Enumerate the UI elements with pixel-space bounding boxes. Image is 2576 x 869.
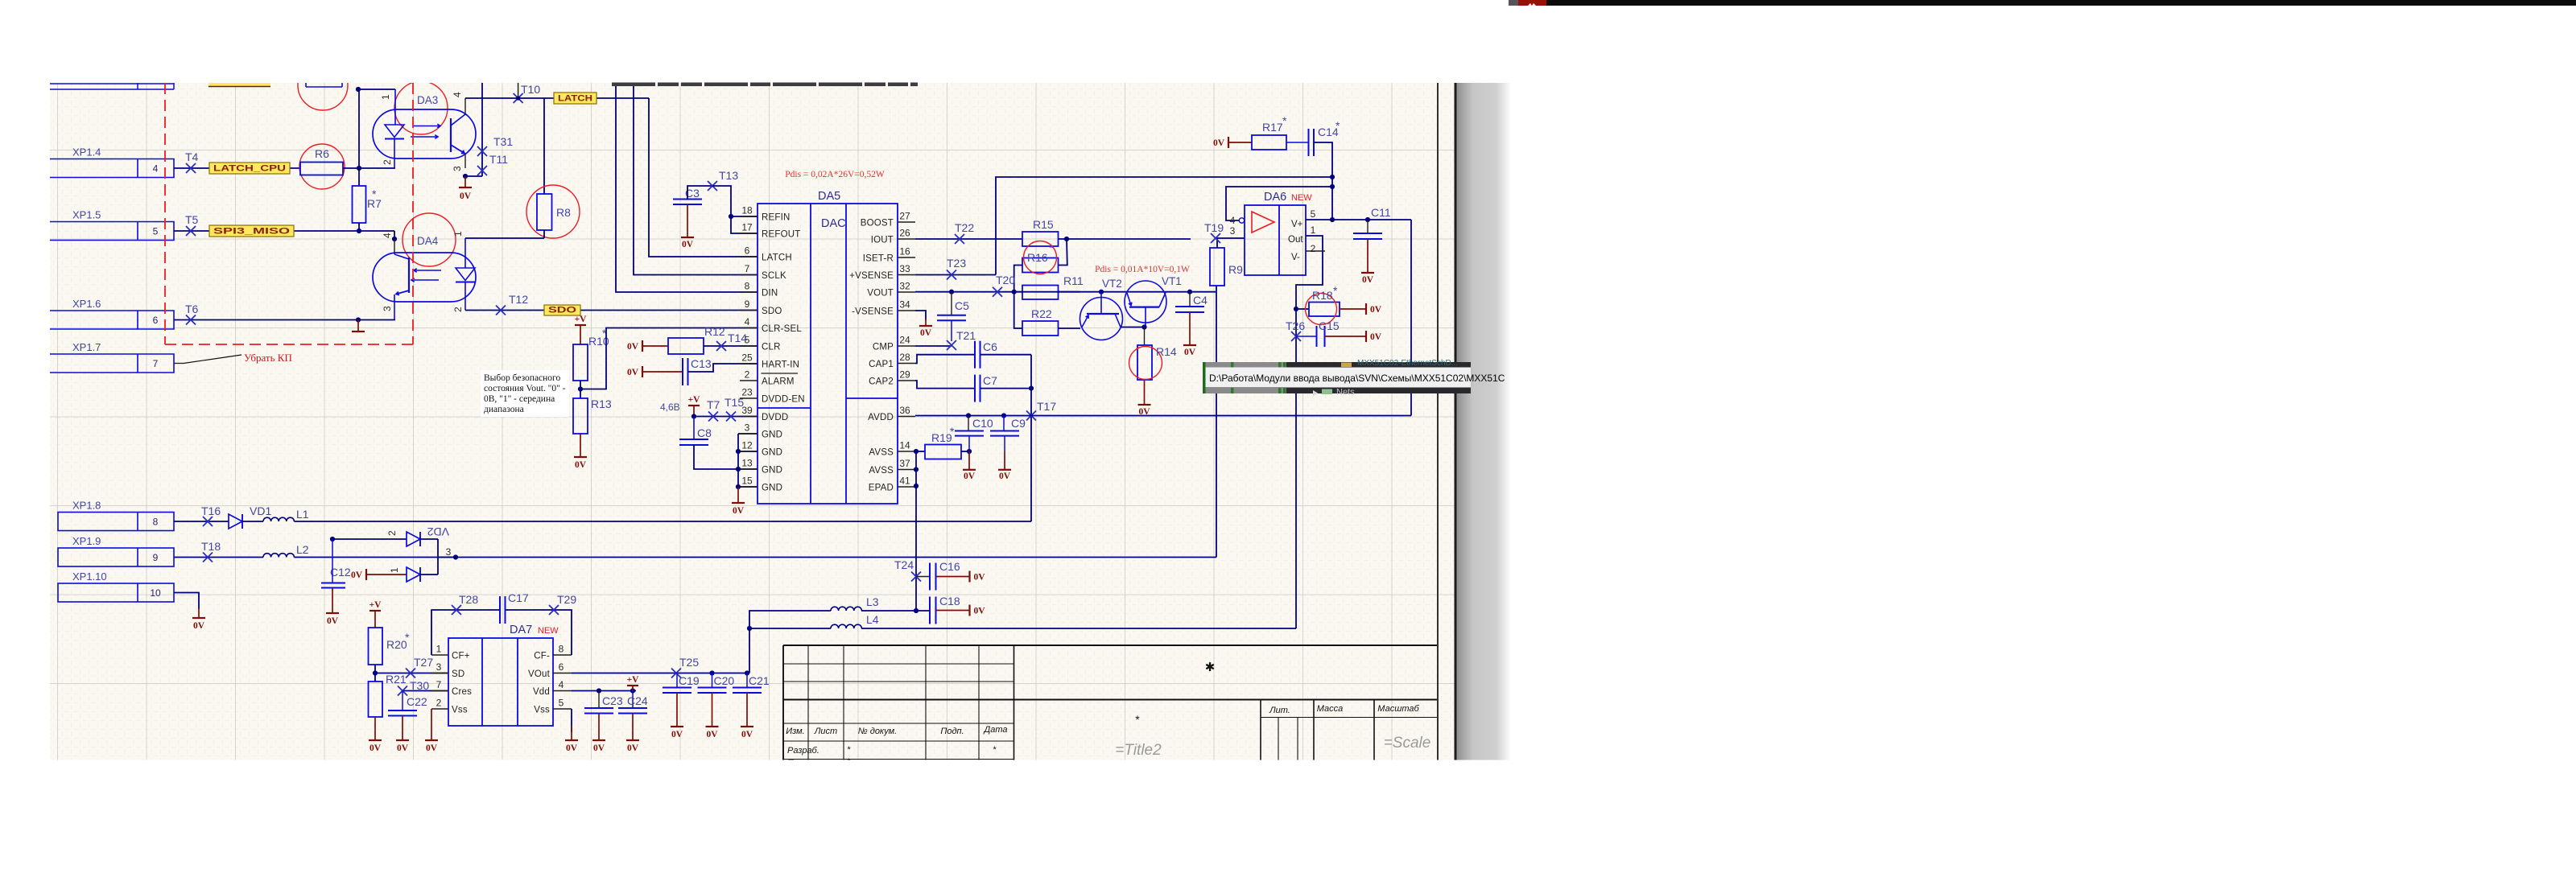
- svg-text:AVDD: AVDD: [868, 413, 894, 422]
- svg-text:T12: T12: [509, 293, 528, 306]
- svg-text:8: 8: [745, 281, 750, 292]
- svg-text:C9: C9: [1011, 417, 1026, 430]
- svg-text:9: 9: [745, 299, 750, 310]
- svg-text:№ докум.: № докум.: [858, 727, 897, 736]
- svg-text:R21: R21: [386, 673, 407, 686]
- svg-text:XP1.4: XP1.4: [72, 146, 101, 159]
- svg-text:4,6В: 4,6В: [660, 402, 680, 413]
- svg-text:Изм.: Изм.: [786, 727, 804, 736]
- svg-text:T11: T11: [489, 153, 508, 166]
- svg-text:T25: T25: [679, 656, 699, 669]
- svg-text:28: 28: [899, 352, 910, 363]
- svg-text:T6: T6: [185, 303, 199, 315]
- svg-text:0V: 0V: [974, 573, 986, 583]
- svg-text:14: 14: [899, 440, 910, 451]
- svg-text:C15: C15: [1319, 319, 1340, 332]
- svg-text:3: 3: [745, 422, 750, 434]
- svg-text:*: *: [1135, 713, 1140, 726]
- svg-text:0V: 0V: [1370, 332, 1382, 342]
- svg-text:4: 4: [153, 163, 159, 175]
- svg-text:VD2: VD2: [427, 525, 449, 538]
- svg-text:C21: C21: [749, 674, 770, 687]
- svg-text:T17: T17: [1037, 400, 1056, 413]
- svg-text:VD1: VD1: [250, 505, 271, 517]
- svg-text:LATCH: LATCH: [762, 253, 792, 263]
- svg-text:DA6: DA6: [1264, 191, 1286, 204]
- svg-text:T29: T29: [557, 593, 576, 606]
- svg-text:1: 1: [436, 644, 442, 655]
- svg-text:L3: L3: [866, 595, 879, 608]
- svg-text:Лист: Лист: [814, 727, 837, 736]
- svg-text:C10: C10: [972, 417, 993, 430]
- svg-text:=Title2: =Title2: [1115, 742, 1162, 759]
- svg-text:*: *: [1335, 119, 1340, 132]
- svg-text:18: 18: [741, 205, 753, 216]
- svg-text:0V: 0V: [460, 192, 472, 201]
- svg-text:5: 5: [559, 698, 564, 709]
- svg-text:*: *: [847, 745, 851, 755]
- svg-text:CLR-SEL: CLR-SEL: [762, 324, 802, 334]
- svg-text:VT1: VT1: [1162, 275, 1182, 287]
- svg-text:DIN: DIN: [762, 289, 778, 299]
- svg-text:7: 7: [153, 358, 159, 369]
- svg-text:VT2: VT2: [1102, 278, 1122, 290]
- svg-text:диапазона: диапазона: [484, 405, 524, 414]
- svg-text:C4: C4: [1193, 294, 1207, 307]
- svg-text:0V: 0V: [351, 570, 363, 580]
- svg-text:REFIN: REFIN: [762, 213, 791, 223]
- svg-text:T13: T13: [719, 169, 738, 182]
- svg-text:Pdis = 0,02A*26V=0,52W: Pdis = 0,02A*26V=0,52W: [785, 170, 885, 179]
- svg-text:1: 1: [1311, 224, 1316, 236]
- svg-text:0V: 0V: [999, 472, 1011, 481]
- svg-text:Дата: Дата: [982, 725, 1007, 735]
- svg-text:4: 4: [559, 679, 564, 690]
- svg-text:DA5: DA5: [818, 190, 840, 203]
- svg-text:T20: T20: [996, 274, 1015, 286]
- svg-text:2: 2: [436, 698, 442, 709]
- svg-text:C18: C18: [939, 595, 960, 607]
- svg-text:GND: GND: [762, 484, 782, 493]
- svg-text:CF+: CF+: [452, 652, 470, 661]
- svg-text:+V: +V: [369, 600, 382, 610]
- svg-text:DA7: DA7: [510, 624, 532, 636]
- svg-text:0V: 0V: [1370, 305, 1382, 315]
- svg-text:C6: C6: [983, 340, 997, 353]
- svg-text:T7: T7: [707, 398, 720, 411]
- svg-text:DA4: DA4: [417, 235, 439, 247]
- svg-text:LATCH: LATCH: [558, 94, 592, 104]
- svg-text:C5: C5: [955, 299, 969, 312]
- svg-text:0V: 0V: [682, 240, 694, 249]
- svg-text:Убрать КП: Убрать КП: [244, 352, 292, 364]
- svg-text:Выбор безопасного: Выбор безопасного: [484, 373, 560, 383]
- svg-text:0V: 0V: [575, 460, 587, 470]
- svg-text:CLR: CLR: [762, 343, 781, 352]
- svg-text:4: 4: [745, 316, 750, 327]
- svg-text:SDO: SDO: [548, 306, 577, 315]
- svg-text:XP1.7: XP1.7: [72, 341, 101, 353]
- svg-text:3: 3: [1230, 225, 1236, 237]
- svg-text:AVSS: AVSS: [869, 448, 894, 458]
- svg-text:R9: R9: [1228, 263, 1243, 276]
- svg-text:0V: 0V: [741, 730, 753, 739]
- svg-text:3: 3: [436, 661, 442, 673]
- svg-text:SPI3_MISO: SPI3_MISO: [213, 227, 291, 237]
- svg-text:T5: T5: [185, 213, 199, 226]
- svg-text:Pdis = 0,01A*10V=0,1W: Pdis = 0,01A*10V=0,1W: [1095, 265, 1190, 274]
- svg-text:0V: 0V: [671, 730, 683, 739]
- svg-text:0V: 0V: [974, 607, 986, 616]
- svg-text:T31: T31: [493, 135, 513, 148]
- svg-text:9: 9: [153, 552, 159, 563]
- svg-text:V-: V-: [1291, 253, 1300, 262]
- svg-text:GND: GND: [762, 466, 782, 476]
- svg-text:0V: 0V: [426, 743, 438, 753]
- svg-text:NEW: NEW: [1291, 193, 1312, 203]
- svg-text:7: 7: [745, 263, 750, 274]
- svg-text:2: 2: [382, 159, 393, 165]
- svg-text:1: 1: [389, 567, 400, 573]
- svg-text:SDO: SDO: [762, 307, 782, 316]
- svg-text:4: 4: [382, 233, 393, 238]
- svg-text:12: 12: [741, 440, 753, 451]
- svg-text:2: 2: [1311, 243, 1316, 254]
- svg-text:5: 5: [153, 226, 159, 237]
- svg-text:0V: 0V: [593, 743, 605, 753]
- svg-text:состояния Vout. "0" -: состояния Vout. "0" -: [484, 384, 566, 393]
- svg-text:EPAD: EPAD: [869, 484, 894, 493]
- svg-text:+VSENSE: +VSENSE: [849, 271, 894, 281]
- svg-text:Масса: Масса: [1317, 704, 1344, 714]
- svg-text:T21: T21: [956, 329, 976, 342]
- svg-text:0V: 0V: [566, 743, 578, 753]
- svg-text:SD: SD: [452, 669, 464, 679]
- svg-text:R18: R18: [1312, 289, 1333, 302]
- svg-text:T24: T24: [894, 558, 914, 571]
- svg-text:+V: +V: [627, 675, 640, 685]
- svg-text:34: 34: [899, 299, 910, 311]
- svg-text:C19: C19: [679, 674, 700, 687]
- svg-text:4: 4: [452, 92, 463, 97]
- svg-text:Vss: Vss: [452, 706, 468, 715]
- svg-text:IOUT: IOUT: [871, 236, 894, 245]
- svg-text:0V: 0V: [1138, 407, 1150, 417]
- svg-text:2: 2: [452, 307, 464, 312]
- svg-text:6: 6: [745, 245, 750, 257]
- svg-text:C20: C20: [714, 674, 735, 687]
- svg-text:BOOST: BOOST: [861, 219, 894, 229]
- svg-text:C8: C8: [697, 426, 712, 439]
- svg-text:DVDD: DVDD: [762, 413, 788, 422]
- svg-text:T16: T16: [201, 505, 221, 517]
- svg-text:15: 15: [741, 476, 753, 487]
- svg-text:*: *: [1282, 114, 1287, 127]
- svg-text:C7: C7: [983, 374, 997, 387]
- svg-text:0V: 0V: [627, 368, 639, 377]
- svg-text:R19: R19: [931, 431, 952, 444]
- svg-text:CAP1: CAP1: [869, 360, 894, 369]
- svg-text:10: 10: [150, 587, 161, 599]
- svg-text:37: 37: [899, 458, 910, 469]
- svg-text:0V: 0V: [193, 621, 205, 631]
- svg-text:R13: R13: [591, 397, 612, 410]
- svg-text:MXX51C02-EthernetSchD...: MXX51C02-EthernetSchD...: [1357, 359, 1458, 368]
- svg-text:6: 6: [559, 661, 564, 673]
- svg-text:5: 5: [745, 335, 750, 346]
- svg-text:LATCH_CPU: LATCH_CPU: [213, 164, 286, 174]
- svg-text:8: 8: [559, 644, 564, 655]
- svg-text:0V: 0V: [1362, 275, 1374, 285]
- svg-text:C12: C12: [330, 566, 351, 579]
- svg-text:CAP2: CAP2: [869, 377, 894, 387]
- svg-text:0V: 0V: [369, 743, 382, 753]
- svg-text:C22: C22: [407, 695, 427, 708]
- svg-text:41: 41: [899, 476, 910, 487]
- svg-text:R16: R16: [1027, 251, 1048, 264]
- svg-text:7: 7: [436, 679, 442, 690]
- svg-text:REFOUT: REFOUT: [762, 230, 800, 240]
- svg-text:16: 16: [899, 246, 910, 257]
- svg-text:R20: R20: [386, 638, 407, 651]
- svg-text:XP1.8: XP1.8: [72, 500, 101, 512]
- svg-text:NEW: NEW: [538, 626, 559, 636]
- svg-text:ALARM: ALARM: [762, 377, 795, 387]
- svg-text:23: 23: [741, 387, 753, 398]
- svg-text:Nets: Nets: [1336, 388, 1355, 397]
- svg-text:2: 2: [386, 530, 398, 536]
- svg-text:Cres: Cres: [452, 687, 472, 697]
- svg-text:R22: R22: [1031, 307, 1052, 320]
- svg-text:*: *: [1049, 241, 1054, 254]
- svg-text:R11: R11: [1063, 274, 1084, 287]
- svg-text:=Scale: =Scale: [1384, 735, 1431, 752]
- svg-text:C17: C17: [508, 591, 529, 604]
- svg-text:25: 25: [741, 352, 753, 364]
- svg-text:Vss: Vss: [534, 706, 550, 715]
- svg-text:DAC: DAC: [821, 217, 846, 230]
- svg-text:CF-: CF-: [534, 652, 550, 661]
- svg-text:DA3: DA3: [417, 94, 438, 106]
- svg-text:0V: 0V: [733, 506, 745, 516]
- svg-text:T10: T10: [521, 83, 540, 96]
- svg-text:R15: R15: [1033, 218, 1054, 231]
- svg-text:Vdd: Vdd: [533, 687, 550, 697]
- svg-text:Out: Out: [1288, 235, 1303, 245]
- svg-text:T28: T28: [459, 593, 478, 606]
- svg-text:CMP: CMP: [873, 343, 894, 352]
- svg-text:1: 1: [452, 231, 464, 237]
- svg-text:R8: R8: [556, 206, 571, 219]
- svg-text:L4: L4: [866, 613, 879, 626]
- svg-text:17: 17: [741, 222, 753, 233]
- svg-text:T23: T23: [947, 257, 966, 270]
- svg-text:R14: R14: [1156, 345, 1177, 358]
- svg-text:29: 29: [899, 369, 910, 381]
- svg-text:0V: 0V: [327, 616, 339, 626]
- svg-text:1: 1: [380, 94, 391, 100]
- svg-text:0V: 0V: [964, 472, 976, 481]
- svg-text:Подп.: Подп.: [940, 727, 964, 736]
- svg-text:0V: 0V: [706, 730, 718, 739]
- svg-text:0V: 0V: [1184, 348, 1196, 357]
- svg-text:XP1.9: XP1.9: [72, 535, 101, 547]
- svg-text:T19: T19: [1204, 221, 1224, 234]
- svg-text:+V: +V: [688, 395, 701, 405]
- svg-text:3: 3: [382, 306, 393, 311]
- svg-text:XP1.10: XP1.10: [72, 570, 107, 583]
- svg-text:0В, "1" - середина: 0В, "1" - середина: [484, 394, 555, 404]
- svg-text:33: 33: [899, 263, 910, 274]
- svg-text:5: 5: [1311, 208, 1316, 220]
- svg-text:8: 8: [153, 517, 159, 528]
- svg-text:*: *: [405, 631, 410, 644]
- svg-text:L2: L2: [296, 543, 309, 556]
- svg-text:0V: 0V: [397, 743, 409, 753]
- svg-text:6: 6: [153, 315, 159, 326]
- svg-text:T18: T18: [201, 540, 221, 553]
- svg-text:VOUT: VOUT: [867, 289, 894, 299]
- svg-text:HART-IN: HART-IN: [762, 360, 799, 370]
- svg-text:3: 3: [446, 546, 452, 558]
- svg-text:3: 3: [452, 166, 463, 171]
- svg-text:27: 27: [899, 211, 910, 222]
- svg-text:*: *: [1333, 284, 1338, 297]
- svg-text:39: 39: [741, 405, 753, 416]
- svg-text:R17: R17: [1262, 121, 1283, 134]
- svg-text:26: 26: [899, 228, 910, 239]
- svg-text:R12: R12: [704, 325, 725, 338]
- svg-text:SCLK: SCLK: [762, 271, 786, 281]
- svg-text:0V: 0V: [627, 743, 639, 753]
- svg-text:VOut: VOut: [528, 669, 551, 679]
- svg-text:ISET-R: ISET-R: [863, 254, 894, 264]
- svg-text:36: 36: [899, 405, 910, 416]
- svg-text:*: *: [950, 425, 955, 438]
- svg-text:*: *: [372, 187, 377, 200]
- svg-text:0V: 0V: [920, 328, 932, 338]
- svg-text:Масштаб: Масштаб: [1377, 704, 1419, 714]
- svg-text:XP1.6: XP1.6: [72, 298, 101, 310]
- svg-text:24: 24: [899, 335, 910, 346]
- svg-text:C16: C16: [939, 560, 960, 573]
- svg-text:GND: GND: [762, 448, 782, 458]
- svg-text:4: 4: [1230, 215, 1236, 226]
- svg-text:T4: T4: [185, 150, 199, 163]
- svg-text:R6: R6: [315, 147, 329, 160]
- svg-text:V+: V+: [1291, 220, 1303, 229]
- svg-text:✱: ✱: [1205, 661, 1216, 674]
- svg-text:C11: C11: [1371, 206, 1391, 219]
- svg-text:*: *: [993, 745, 997, 755]
- svg-text:Лит.: Лит.: [1269, 706, 1290, 715]
- svg-text:0V: 0V: [627, 342, 639, 352]
- svg-text:GND: GND: [762, 430, 782, 440]
- svg-text:T26: T26: [1286, 319, 1305, 332]
- svg-text:C24: C24: [627, 694, 648, 707]
- svg-text:T27: T27: [414, 656, 433, 669]
- svg-text:Разраб.: Разраб.: [787, 746, 819, 756]
- svg-text:T22: T22: [955, 221, 974, 234]
- svg-text:DVDD-EN: DVDD-EN: [762, 395, 805, 405]
- svg-text:0V: 0V: [1213, 138, 1225, 148]
- svg-text:C13: C13: [691, 357, 712, 370]
- svg-text:C23: C23: [602, 694, 623, 707]
- svg-text:AVSS: AVSS: [869, 466, 894, 476]
- svg-text:2: 2: [745, 369, 750, 381]
- svg-text:L1: L1: [296, 508, 309, 521]
- svg-text:+V: +V: [575, 315, 588, 324]
- svg-text:32: 32: [899, 281, 910, 292]
- svg-text:-VSENSE: -VSENSE: [852, 307, 894, 317]
- svg-text:T30: T30: [410, 679, 429, 692]
- svg-text:XP1.5: XP1.5: [72, 209, 101, 221]
- svg-text:D:\Работа\Модули ввода вывода\: D:\Работа\Модули ввода вывода\SVN\Схемы\…: [1209, 373, 1505, 384]
- svg-text:13: 13: [741, 458, 753, 469]
